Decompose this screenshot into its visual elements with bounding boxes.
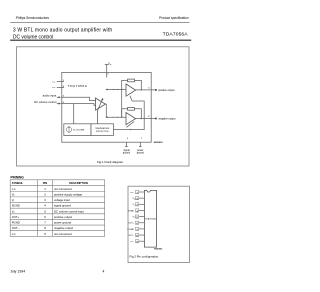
svg-text:Fig.1 block diagram.: Fig.1 block diagram. (97, 160, 124, 164)
svg-text:OUT+: OUT+ (12, 215, 20, 219)
svg-text:power ground: power ground (54, 221, 72, 225)
svg-text:negative output: negative output (54, 226, 73, 230)
supply terminal VP (105, 64, 109, 77)
ground pin 7 power ground (137, 138, 145, 155)
pin table header (12, 181, 88, 185)
fig2 pin 7 PGND (128, 227, 145, 231)
svg-text:9: 9 (44, 232, 46, 236)
wire from U1 output (104, 104, 107, 117)
pin table rows (12, 187, 84, 236)
DC volume control terminal pin 5 (34, 100, 65, 105)
ground pin 4 signal ground (123, 138, 131, 155)
fig2 pin 2 VP (133, 197, 145, 201)
svg-text:3: 3 (44, 198, 46, 202)
svg-text:Philips Semiconductors: Philips Semiconductors (16, 16, 50, 20)
svg-text:not connected: not connected (54, 187, 72, 191)
svg-text:n.c.: n.c. (130, 192, 134, 194)
svg-text:4: 4 (127, 138, 129, 140)
svg-text:positive output: positive output (158, 89, 174, 92)
volume control arrow through U1 (98, 100, 103, 124)
svg-text:DC volume control: DC volume control (34, 100, 57, 104)
svg-text:OUT−: OUT− (128, 235, 135, 237)
svg-text:DC VOLUME: DC VOLUME (73, 129, 85, 131)
svg-text:5: 5 (44, 209, 46, 213)
svg-text:9: 9 (63, 86, 65, 88)
IC package body with notch (144, 190, 156, 247)
svg-text:TDA7056A: TDA7056A (163, 31, 189, 37)
svg-text:2: 2 (44, 192, 46, 196)
svg-text:6: 6 (148, 87, 150, 89)
svg-text:n.c.: n.c. (12, 187, 17, 191)
diagonal wire into op-amp U3 (126, 122, 134, 128)
svg-text:2: 2 (107, 74, 109, 76)
op-amp U3 negative output stage (126, 113, 136, 125)
svg-text:PROTECTION: PROTECTION (96, 131, 109, 133)
junction on temp wire (130, 129, 131, 130)
wire branch to attenuator (73, 104, 75, 124)
fig2 pin 1 n.c. (130, 190, 144, 194)
svg-text:signal: signal (123, 150, 129, 152)
wire joining amp input nodes (121, 90, 123, 118)
svg-text:DC volume control input: DC volume control input (54, 209, 84, 213)
figure 1 border (17, 47, 190, 166)
svg-text:MGD903: MGD903 (154, 249, 163, 251)
svg-text:OUT−: OUT− (12, 226, 20, 230)
pin table grid (10, 180, 105, 237)
svg-text:P: P (110, 64, 112, 66)
IC block TDA7056A (62, 72, 151, 142)
svg-text:PGND: PGND (12, 221, 20, 225)
fig2 pin 4 SGND (128, 209, 145, 213)
svg-text:SYMBOL: SYMBOL (12, 181, 24, 185)
svg-text:ground: ground (123, 152, 131, 155)
audio input terminal pin 3 (43, 94, 65, 99)
wire temp block to amps (114, 101, 145, 130)
svg-text:I: I (134, 205, 135, 207)
svg-text:6: 6 (44, 215, 46, 219)
svg-text:1: 1 (63, 80, 65, 82)
wire audio input to op-amp (61, 97, 96, 100)
svg-text:TDA7056A: TDA7056A (145, 217, 156, 220)
fig2 pin 9 n.c. (130, 240, 144, 244)
input wire to U2 (105, 89, 126, 91)
svg-text:Product specification: Product specification (159, 16, 189, 20)
svg-text:signal ground: signal ground (54, 204, 71, 208)
svg-text:n.c.: n.c. (12, 232, 17, 236)
svg-text:7: 7 (141, 138, 143, 140)
temperature protection block (91, 124, 114, 136)
svg-text:P: P (134, 199, 135, 201)
n.c. pin 9 (52, 86, 65, 89)
svg-text:n.c.: n.c. (130, 241, 134, 243)
svg-text:power: power (137, 149, 143, 152)
svg-text:3 W BTL mono audio output ampl: 3 W BTL mono audio output amplifier with (13, 27, 112, 33)
svg-text:OUT+: OUT+ (128, 223, 135, 225)
svg-text:8: 8 (44, 226, 46, 230)
op-amp U2 positive output stage (126, 84, 136, 96)
svg-text:July 1994: July 1994 (10, 270, 25, 274)
svg-text:PINNING: PINNING (11, 175, 25, 179)
svg-text:n.c.: n.c. (52, 87, 56, 89)
svg-text:8: 8 (148, 116, 150, 118)
svg-text:MGD902: MGD902 (154, 142, 164, 144)
negative output wire pin 8 (136, 116, 176, 121)
input wire to U3 (105, 116, 126, 118)
n.c. pin 1 (52, 80, 65, 83)
resistor R2 feedback of U3 (122, 108, 142, 119)
pin 2 square (107, 74, 109, 76)
fig2 pin 3 VI (133, 203, 145, 207)
svg-text:ground: ground (137, 152, 145, 155)
svg-text:voltage input: voltage input (54, 198, 70, 202)
svg-text:positive output: positive output (54, 215, 72, 219)
op-amp U1 input stage (96, 98, 106, 110)
header rule (10, 22, 189, 24)
resistor R1 feedback of U2 (122, 79, 142, 90)
svg-text:DESCRIPTION: DESCRIPTION (69, 181, 87, 185)
svg-text:positive supply voltage: positive supply voltage (54, 192, 83, 196)
svg-text:1: 1 (44, 187, 46, 191)
svg-text:TDA7056A: TDA7056A (68, 84, 88, 88)
attenuator block with control source (64, 124, 91, 136)
svg-text:4: 4 (44, 204, 46, 208)
svg-text:PIN: PIN (43, 181, 48, 185)
svg-text:negative output: negative output (158, 118, 175, 121)
fig2 pin 6 OUT+ (128, 221, 144, 225)
svg-text:SGND: SGND (128, 210, 135, 212)
diagonal wire into op-amp U2 (130, 96, 132, 101)
svg-text:TEMPERATURE: TEMPERATURE (95, 127, 110, 130)
svg-text:audio input: audio input (43, 94, 57, 98)
svg-text:not connected: not connected (54, 232, 72, 236)
thick rule under title (10, 40, 191, 42)
fig2 pin 8 OUT− (128, 233, 144, 237)
svg-text:Fig.2 Pin configuration.: Fig.2 Pin configuration. (130, 255, 160, 259)
svg-text:n.c.: n.c. (52, 81, 56, 83)
svg-text:SGND: SGND (12, 204, 20, 208)
fig2 pin 5 VC (133, 215, 145, 219)
positive output wire pin 6 (136, 87, 175, 92)
wire volume control (61, 104, 96, 106)
svg-text:4: 4 (103, 270, 105, 274)
svg-text:PGND: PGND (128, 229, 135, 231)
figure 2 border (128, 186, 190, 262)
svg-text:7: 7 (44, 221, 46, 225)
